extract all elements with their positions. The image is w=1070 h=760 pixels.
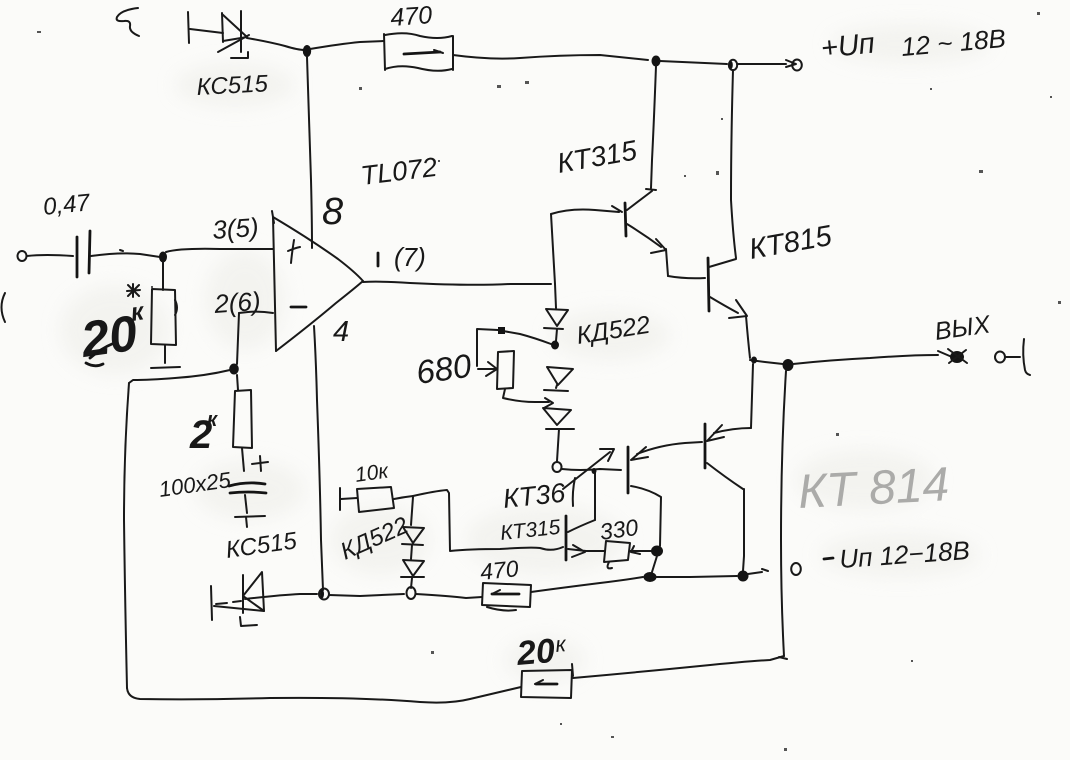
left margin parenthesis mark (2, 293, 6, 322)
junction dot at KT315 collector (x=655) (652, 56, 661, 67)
junction oval on negative rail (644, 572, 657, 582)
ring junction diode chain / rail (407, 587, 416, 599)
node junction dot (top, x=307) (303, 45, 311, 57)
lead and end bar of R2 (164, 345, 166, 363)
label 1 (7) output pin (378, 242, 426, 272)
wire Q3 emitter to R6 (586, 550, 604, 552)
svg-text:8: 8 (322, 191, 343, 233)
transistor Q4 KT361 body (628, 442, 702, 493)
wire junction up to KT361 collector (631, 486, 661, 546)
vertical wire minus node (237, 313, 239, 364)
svg-text:КС515: КС515 (196, 70, 269, 101)
diode VD5 KD522 (bottom of chain) (543, 408, 574, 461)
diode VD4 KD522 (middle of chain) (544, 367, 573, 391)
minus node junction dot (229, 364, 239, 375)
junction oval KT814 collector on rail (738, 571, 749, 582)
+V terminal arrow and ring (786, 60, 796, 67)
pin 8 power wire from top node (307, 57, 312, 248)
wire junction down to negative rail (652, 556, 657, 572)
resistor R7 20k (feedback) (521, 664, 573, 698)
resistor R6 330 (604, 541, 630, 568)
svg-text:КТ 814: КТ 814 (797, 458, 951, 519)
wire to left and down into R4 (477, 329, 498, 366)
output terminal ring (995, 352, 1005, 363)
annotation arrow to KT361 (563, 449, 614, 489)
wire ring to KT361 base (562, 469, 621, 470)
resistor R3 2k (233, 390, 252, 448)
wire Q1 emitter to Q2 base (668, 276, 705, 278)
svg-text:0,47: 0,47 (42, 189, 93, 221)
output rail from Q2 emitter (750, 360, 783, 364)
wire pin2 to minus node (239, 312, 273, 313)
svg-text:470: 470 (479, 555, 520, 585)
KT814 emitter wire up to output rail (751, 364, 753, 428)
diode VD3 KD522 (top of chain) (544, 309, 568, 341)
svg-text:+Uп: +Uп (819, 28, 876, 65)
wire node to resistor R1 (310, 41, 384, 49)
feedback wire: minus node to left edge (129, 370, 230, 383)
wire input to C1 (27, 255, 73, 256)
svg-text:10к: 10к (353, 459, 390, 487)
big junction dot output node (783, 359, 794, 371)
wire R6 to junction (630, 546, 651, 554)
ring junction pin4 / rail (319, 589, 329, 600)
svg-text:330: 330 (598, 514, 640, 545)
feedback right vertical wire to output node (781, 371, 786, 656)
junction ring at KT815 collector (x=733) (729, 60, 737, 70)
wire junction to R4 top (503, 331, 551, 344)
label 2k (189, 409, 218, 457)
input node junction dot (159, 252, 167, 263)
stray pen squiggle top-left (117, 8, 139, 36)
op-amp output wire to bias node (363, 282, 551, 285)
lead R3 to C2 (242, 448, 244, 471)
plug bar (1023, 339, 1030, 375)
negative rail wire to R8 (416, 594, 482, 598)
capacitor C1 0,47 (77, 231, 90, 277)
svg-text:2(6): 2(6) (212, 286, 261, 319)
op-amp U1 TL072 triangle (272, 211, 363, 351)
resistor R5 10k (340, 487, 394, 512)
capacitor C2 100x25 electrolytic (229, 456, 268, 527)
junction dot between VD3 and VD4 (551, 341, 559, 350)
resistor R1 470 (top) (384, 33, 453, 71)
KT814 collector wire down to negative rail (743, 489, 744, 571)
negative rail wire zener to pin4 ring (245, 594, 317, 599)
diode VD6 KD522 (lower pair top) (402, 527, 424, 559)
zener diode VD1 KC515 (top-left) (188, 11, 249, 58)
svg-text:(7): (7) (394, 242, 426, 272)
diode VD7 KD522 (lower pair bottom) (401, 560, 424, 588)
op-amp - input symbol (291, 306, 306, 309)
transistor Q3 KT315 body (bottom) (566, 468, 597, 560)
negative supply terminal ring (791, 563, 801, 575)
negative rail wire R8 to 330 node (531, 577, 643, 592)
output terminal scribble dot (948, 349, 967, 363)
svg-text:4: 4 (333, 316, 349, 348)
wire +V rail to right (453, 55, 648, 60)
label 20k (feedback) (514, 631, 568, 673)
wire R5 to bias node A (394, 496, 413, 499)
wire rail segment (660, 61, 727, 64)
wire C1 to input node (91, 253, 160, 257)
svg-text:470: 470 (389, 1, 433, 32)
feedback bottom wire left section (127, 687, 521, 703)
base wire op-amp out to Q1 (551, 206, 622, 214)
wire bias node down to diode chain (555, 284, 556, 308)
small dot at emitter/rail joint (751, 357, 757, 364)
wire node to op-amp pin3 (166, 249, 273, 252)
wire op-amp out node up to KT315 base wire (551, 214, 555, 284)
ring junction KT361 base node (553, 462, 562, 472)
output wire to BYX terminal (793, 355, 938, 364)
label 20k* (big) (77, 284, 147, 368)
wire node A up-right and down to KT315b base (413, 490, 563, 551)
wire ring to plug bar (1005, 356, 1020, 358)
wire node A down to diode VD6 (411, 497, 413, 525)
wire minus node down to R3 (237, 375, 238, 390)
feedback wire R7 to right vertical (573, 656, 784, 678)
wire R4 bottom to chain between VD4 and VD5 (503, 389, 549, 402)
svg-text:3(5): 3(5) (211, 212, 259, 245)
arrow into R4 (478, 362, 497, 376)
pin 4 power wire down (314, 326, 323, 590)
transistor Q2 KT815 collector wire from +V rail (731, 70, 736, 258)
small square dot at R4 top wire (498, 327, 505, 334)
svg-text:680: 680 (414, 347, 474, 391)
negative rail wire to diode ring (329, 594, 404, 596)
feedback left vertical wire (124, 383, 129, 688)
svg-text:к: к (207, 409, 218, 431)
op-amp + input symbol (288, 240, 300, 263)
transistor Q1 KT315 body (625, 191, 668, 276)
wire node down to R2 (162, 262, 164, 290)
resistor R4 680 (497, 351, 514, 389)
label -Un 12-18V (824, 535, 971, 574)
input terminal ring (18, 251, 27, 261)
negative rail junction to terminal (656, 576, 737, 577)
wire zener to top node (247, 38, 305, 50)
resistor R2 20k (input) (151, 289, 177, 345)
transistor Q2 KT815 body (708, 258, 750, 358)
zener diode VD2 KC515 (bottom) (211, 572, 264, 626)
wire rail to +V terminal (737, 63, 786, 65)
svg-text:20: 20 (514, 632, 556, 673)
transistor Q1 KT315 collector wire from +V rail (646, 66, 656, 190)
junction dot R6 / KT361 collector (651, 546, 663, 557)
resistor R8 470 (bottom) (482, 583, 531, 611)
transistor Q5 KT814 body (705, 424, 751, 489)
label KT361 (501, 478, 575, 514)
